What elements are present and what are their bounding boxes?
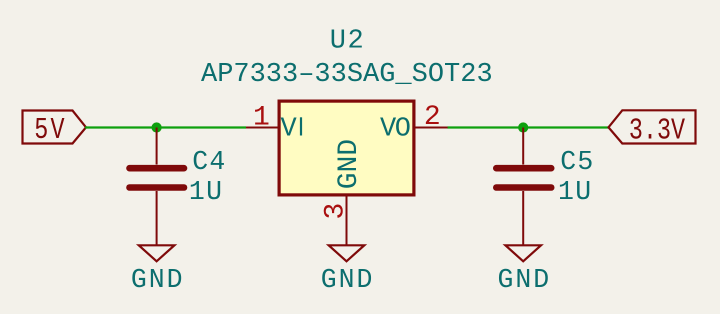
ground right: [505, 245, 541, 261]
pin 3: [346, 196, 348, 245]
pin 2: [415, 127, 448, 129]
svg-text:5V: 5V: [34, 113, 67, 148]
junction right node: [518, 122, 528, 132]
svg-text:2: 2: [424, 102, 441, 133]
regulator U2 body: [279, 101, 414, 195]
svg-text:U2: U2: [330, 27, 366, 57]
svg-text:C5: C5: [560, 147, 594, 177]
pin 1: [246, 127, 278, 129]
svg-text:C4: C4: [192, 147, 226, 177]
wire VO to 3.3V: [448, 126, 610, 128]
svg-text:GND: GND: [497, 265, 551, 295]
power flag 3.3V: [609, 110, 696, 148]
svg-text:GND: GND: [321, 265, 375, 295]
wire 5V to VI: [85, 126, 246, 128]
ground middle: [329, 245, 365, 261]
svg-text:1U: 1U: [189, 177, 223, 207]
capacitor C5: [496, 128, 551, 246]
svg-text:V: V: [281, 115, 298, 145]
svg-text:1U: 1U: [558, 177, 592, 207]
svg-text:3.3V: 3.3V: [629, 114, 686, 149]
capacitor C4: [130, 128, 185, 246]
power flag 5V: [23, 111, 87, 149]
ground left: [139, 245, 175, 261]
svg-text:GND: GND: [131, 265, 185, 295]
junction left node: [152, 122, 162, 132]
svg-text:1: 1: [253, 102, 270, 133]
svg-text:AP7333–33SAG_SOT23: AP7333–33SAG_SOT23: [201, 60, 493, 90]
svg-text:3: 3: [320, 203, 351, 220]
svg-text:GND: GND: [334, 139, 365, 189]
svg-text:VO: VO: [380, 115, 410, 145]
